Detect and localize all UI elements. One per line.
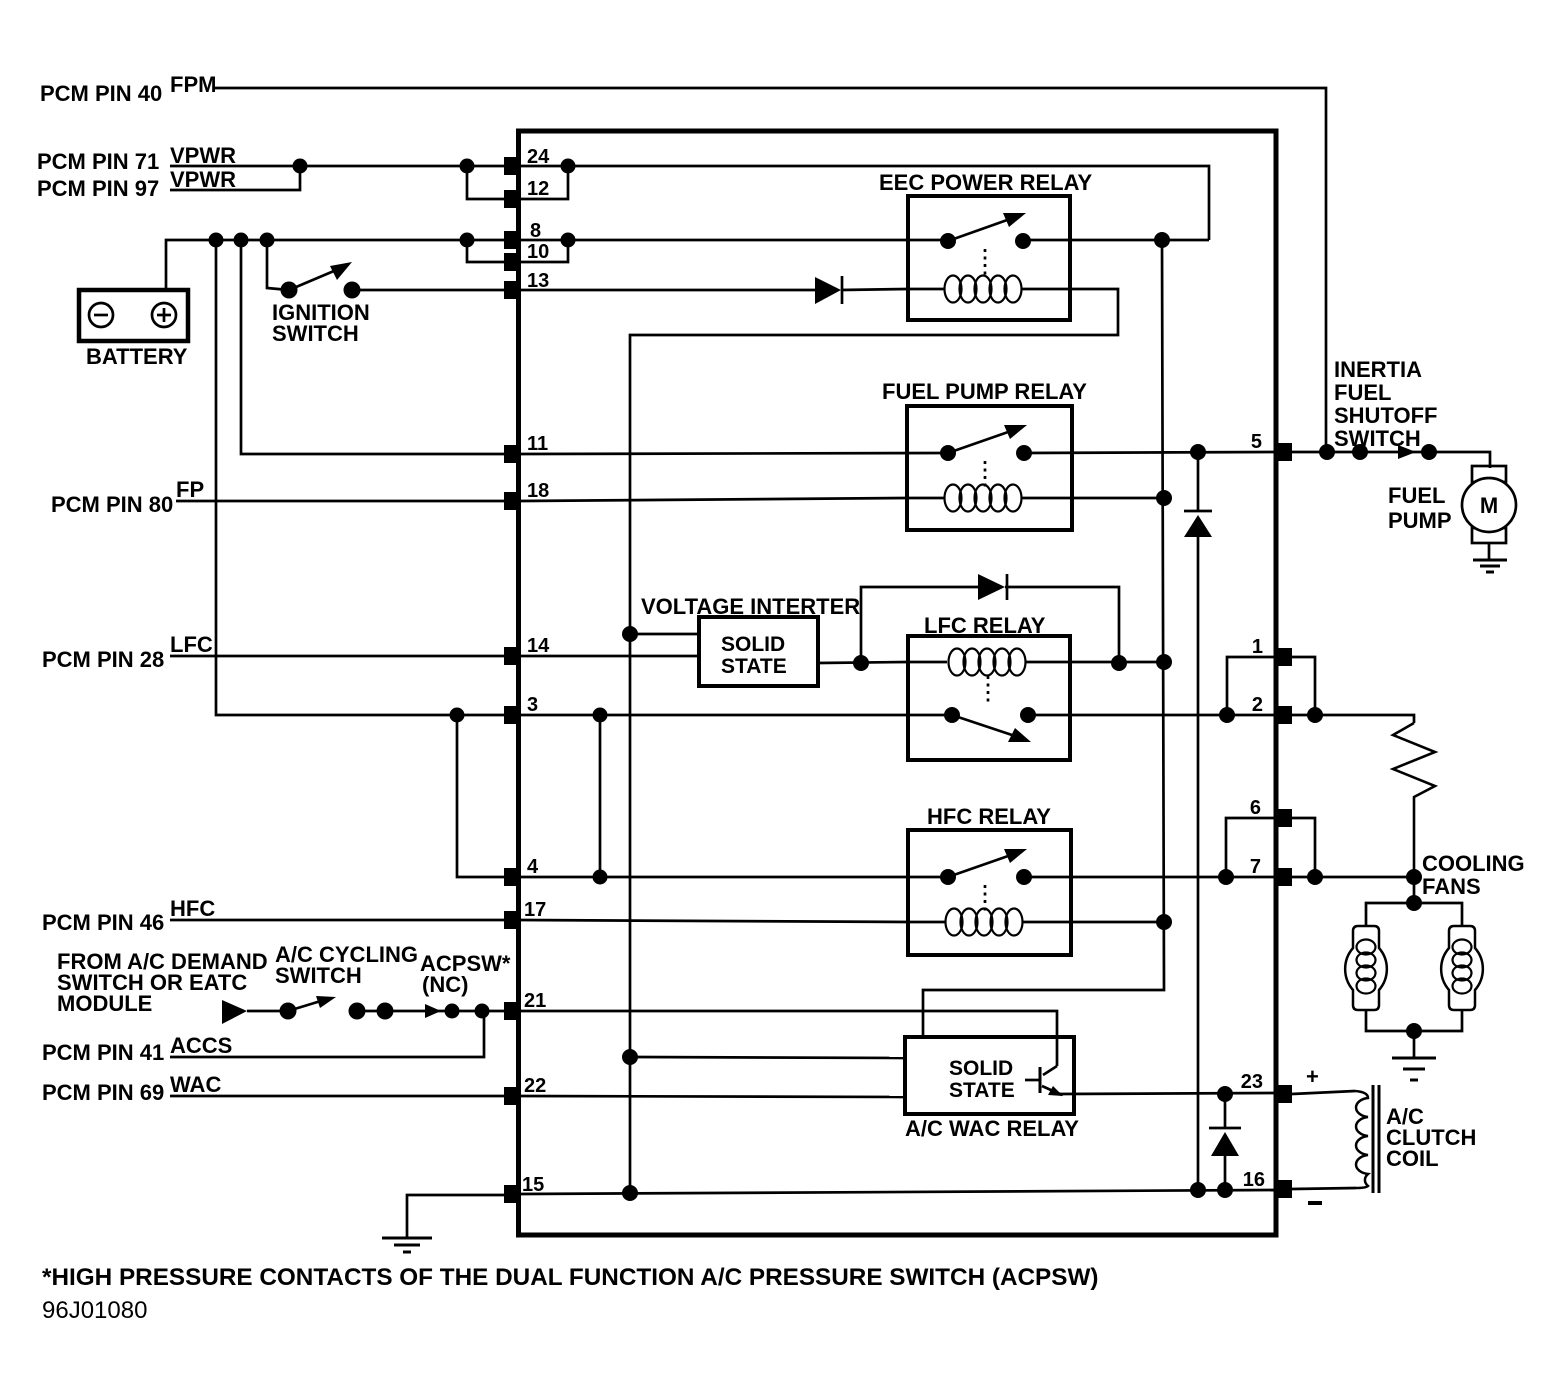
svg-text:A/C WAC RELAY: A/C WAC RELAY: [905, 1116, 1079, 1141]
svg-text:23: 23: [1241, 1071, 1263, 1093]
junction dot pin1 bracket outside: [1307, 707, 1323, 723]
wire bracket pin 24 to pin 12 outside: [467, 166, 504, 199]
svg-text:FPM: FPM: [170, 72, 216, 97]
svg-text:HFC RELAY: HFC RELAY: [927, 804, 1051, 829]
junction dot battery node C: [260, 233, 275, 248]
svg-text:BATTERY: BATTERY: [86, 344, 188, 369]
power rail from EEC output: [923, 240, 1164, 1037]
svg-text:M: M: [1480, 493, 1498, 518]
svg-text:SOLID: SOLID: [949, 1057, 1013, 1080]
wire pin 15 to pin 16 ground bus: [521, 1190, 1276, 1194]
fuel pump clamp diode: [1184, 452, 1212, 1190]
a/c cycling switch: [247, 996, 394, 1020]
junction dot coil return on power rail: [1156, 490, 1172, 506]
junction dot HFC coil return: [1156, 914, 1172, 930]
pin 13: [504, 270, 549, 299]
svg-text:SOLID: SOLID: [721, 633, 785, 656]
pin 24: [504, 146, 550, 175]
svg-text:18: 18: [527, 480, 549, 502]
wire pin 7 to cooling fans: [1292, 876, 1414, 879]
wire pin 2 to resistor: [1292, 715, 1414, 723]
junction dot ground rail on ground bus: [622, 1185, 638, 1201]
svg-text:SWITCH: SWITCH: [1334, 426, 1421, 451]
wire diode to EEC coil: [841, 289, 908, 290]
junction dot VPWR: [293, 159, 308, 174]
junction dot LFC coil input: [853, 655, 869, 671]
pin 18: [504, 480, 549, 510]
junction dot on pin 8 wire: [460, 233, 475, 248]
wire pin 22 to WAC module: [521, 1096, 905, 1097]
pin 14: [504, 635, 550, 665]
svg-text:14: 14: [527, 635, 550, 657]
wire pin 24 line inside to EEC contact feed: [521, 166, 1209, 240]
svg-text:PCM PIN 40: PCM PIN 40: [40, 81, 162, 106]
pin 22: [504, 1075, 546, 1105]
svg-text:11: 11: [527, 433, 548, 455]
svg-text:1: 1: [1252, 636, 1263, 658]
wire ground rail to WAC module: [630, 1057, 905, 1058]
wire riser pin3 wire to pin 4 line at x600: [599, 715, 602, 877]
pin 8: [504, 220, 541, 249]
wire HFC coil return to power rail: [1071, 921, 1164, 924]
svg-text:96J01080: 96J01080: [42, 1297, 147, 1324]
pin 16: [1243, 1169, 1292, 1198]
resistor R1: [1393, 723, 1435, 877]
wire LFC output to pin 2: [1028, 714, 1276, 717]
battery positive feed wire: [166, 240, 504, 290]
pin 4: [504, 856, 539, 886]
wire left fan branch: [1366, 903, 1414, 926]
ground symbol cooling fans: [1392, 1058, 1436, 1080]
pin 21: [504, 990, 546, 1020]
junction dot ACPSW wire: [445, 1004, 460, 1019]
svg-text:2: 2: [1252, 694, 1263, 716]
junction dot pin 3 wire at x457: [450, 708, 465, 723]
junction dot on pin 4 line: [593, 870, 608, 885]
wire fan ground stem: [1413, 1031, 1416, 1057]
pin 11: [504, 433, 548, 463]
junction dot pin1 bracket inside: [1219, 707, 1235, 723]
wire ACPSW to pin 21: [357, 1010, 504, 1013]
svg-text:7: 7: [1250, 856, 1261, 878]
wire EEC coil return to ground rail: [630, 289, 1118, 1193]
junction dot battery node A: [209, 233, 224, 248]
wire ACCS riser: [170, 1011, 484, 1057]
LFC bypass diode branch: [861, 574, 1119, 663]
junction dot inside pin 24 wire: [561, 159, 576, 174]
wire direction arrow on ACPSW wire: [425, 1004, 441, 1018]
pin 10: [504, 241, 549, 271]
svg-text:+: +: [1306, 1064, 1319, 1089]
junction dot bypass return: [1111, 655, 1127, 671]
svg-text:4: 4: [527, 856, 539, 878]
pin 7: [1250, 856, 1292, 886]
svg-text:MODULE: MODULE: [57, 991, 152, 1016]
svg-text:12: 12: [527, 178, 549, 200]
pin 12: [504, 178, 549, 208]
svg-text:21: 21: [524, 990, 546, 1012]
junction dot fan branch node: [1406, 895, 1422, 911]
wire EEC contact output to VPWR feed corner: [1023, 239, 1209, 242]
wire pin 4 to HFC contact: [521, 876, 948, 879]
svg-text:FUEL: FUEL: [1334, 380, 1391, 405]
junction dot inside pin 8 wire: [561, 233, 576, 248]
relay FUEL PUMP RELAY K2: [882, 379, 1087, 530]
wire fan parallel branches: [1413, 877, 1416, 903]
svg-text:STATE: STATE: [721, 655, 787, 678]
junction dot pin6 bracket inside: [1218, 869, 1234, 885]
junction dot fuel pump diode on ground bus: [1190, 1182, 1206, 1198]
wire pin 13 to diode: [521, 289, 815, 292]
relay HFC RELAY K4: [908, 804, 1071, 955]
wire FP label to pin 18: [176, 500, 504, 503]
wire WAC output to pin 23: [1060, 1093, 1276, 1094]
junction dot battery node B: [234, 233, 249, 248]
svg-text:10: 10: [527, 241, 549, 263]
svg-text:FUEL: FUEL: [1388, 483, 1445, 508]
svg-text:COOLING: COOLING: [1422, 851, 1525, 876]
svg-text:SWITCH: SWITCH: [275, 963, 362, 988]
junction dot on pin 24 wire: [460, 159, 475, 174]
svg-text:ACCS: ACCS: [170, 1033, 232, 1058]
svg-text:PCM PIN 41: PCM PIN 41: [42, 1040, 164, 1065]
diode on pin 13 line: [815, 276, 842, 304]
pin 23: [1241, 1071, 1292, 1103]
ground symbol pin 15: [382, 1238, 432, 1252]
svg-text:SHUTOFF: SHUTOFF: [1334, 403, 1437, 428]
svg-text:6: 6: [1250, 797, 1261, 819]
junction dot fan ground node: [1406, 1023, 1422, 1039]
wire bracket pin 8 to pin 10 inside: [521, 240, 568, 262]
pin 15: [504, 1174, 544, 1203]
junction dot cooling fans node: [1406, 869, 1422, 885]
wire pin 18 to fuel pump relay coil: [521, 498, 907, 501]
A/C clutch coil L1: [1355, 1085, 1476, 1193]
wire WAC label to pin 22: [170, 1095, 504, 1098]
svg-text:*HIGH PRESSURE CONTACTS OF THE: *HIGH PRESSURE CONTACTS OF THE DUAL FUNC…: [42, 1264, 1099, 1291]
wire VPWR pin 71 to pin 24: [170, 165, 504, 168]
wire HFC output to pin 7: [1024, 876, 1276, 879]
svg-text:HFC: HFC: [170, 896, 215, 921]
wire pin 23 to clutch coil: [1292, 1091, 1355, 1094]
wire ignition switch to pin 13: [352, 289, 504, 292]
junction dot clutch diode tap: [1217, 1086, 1233, 1102]
wire pin 5 through inertia switch to fuel pump: [1292, 452, 1490, 468]
svg-text:FANS: FANS: [1422, 874, 1481, 899]
pin 5: [1251, 431, 1292, 461]
junction dot pin 3 wire at x600: [593, 708, 608, 723]
a/c demand input arrow: [222, 1000, 247, 1024]
svg-text:22: 22: [524, 1075, 546, 1097]
junction dot ground rail to WAC module: [622, 1049, 638, 1065]
junction dot clamp diode tap on pin 5 line: [1190, 444, 1206, 460]
pin 2: [1252, 694, 1292, 724]
fan motor left: [1345, 926, 1387, 1010]
PCM connector box: [519, 131, 1277, 1235]
svg-text:PCM PIN 71: PCM PIN 71: [37, 149, 159, 174]
wire bracket pin1 outside: [1292, 657, 1315, 715]
motor FUEL PUMP M1: [1388, 466, 1516, 572]
voltage interter SOLID STATE module U2: [699, 617, 818, 686]
wire HFC label to pin 17: [170, 919, 504, 922]
ground wire at pin 15: [407, 1195, 504, 1237]
svg-text:VPWR: VPWR: [170, 143, 236, 168]
pin 17: [504, 899, 546, 929]
svg-text:EEC POWER RELAY: EEC POWER RELAY: [879, 170, 1092, 195]
A/C WAC RELAY SOLID STATE module U3: [905, 1037, 1079, 1141]
wire fuel pump relay output to pin 5: [1024, 452, 1276, 453]
wire pin 21 to WAC transistor collector: [521, 1011, 1057, 1066]
svg-text:LFC: LFC: [170, 632, 213, 657]
junction dot ACCS tap: [475, 1004, 490, 1019]
junction dot LFC coil return: [1156, 654, 1172, 670]
label minus sign: [1308, 1201, 1322, 1205]
svg-text:COIL: COIL: [1386, 1146, 1439, 1171]
svg-text:PCM PIN 69: PCM PIN 69: [42, 1080, 164, 1105]
svg-text:PCM PIN 46: PCM PIN 46: [42, 910, 164, 935]
junction dot FPM tap: [1319, 444, 1335, 460]
wire pin 8 to EEC relay contact: [521, 239, 948, 242]
wire right fan branch: [1414, 903, 1462, 926]
wire pin 11 to fuel pump relay contact: [521, 453, 948, 454]
fan motor right: [1441, 926, 1483, 1010]
battery BATTERY: [79, 290, 188, 369]
wire LFC label to pin 14: [170, 655, 504, 658]
wire VPWR pin 97 riser: [170, 166, 300, 190]
svg-text:(NC): (NC): [422, 972, 468, 997]
wire FPM from PCM PIN 40 to inertia-switch node: [214, 88, 1326, 452]
junction dot EEC output / power rail: [1154, 232, 1170, 248]
wire clutch coil return to pin 16: [1292, 1188, 1356, 1189]
wire fan returns to ground: [1366, 1010, 1462, 1031]
wire bracket pin 8 to pin 10 outside: [467, 240, 504, 262]
relay LFC RELAY K3: [908, 613, 1070, 760]
pin 3: [504, 694, 538, 724]
pin 1: [1252, 636, 1292, 666]
wire bracket pin6 inside: [1226, 818, 1276, 877]
svg-text:16: 16: [1243, 1169, 1265, 1191]
svg-text:17: 17: [524, 899, 546, 921]
wire bracket pin6 outside: [1292, 818, 1315, 877]
wire ground rail to voltage interter: [630, 633, 699, 636]
A/C clutch clamp diode: [1209, 1094, 1241, 1190]
svg-text:PCM PIN 28: PCM PIN 28: [42, 647, 164, 672]
wire fuel pump coil return to power rail: [1072, 497, 1164, 500]
wire pin 17 to HFC coil: [521, 920, 908, 922]
inertia switch arrow: [1398, 445, 1416, 459]
op EEC POWER RELAY U1: [879, 170, 1092, 320]
svg-text:FP: FP: [176, 477, 204, 502]
wire LFC coil return to power rail: [1070, 661, 1164, 664]
wire pin 14 to voltage interter: [521, 655, 699, 658]
svg-text:SWITCH: SWITCH: [272, 321, 359, 346]
svg-text:PCM PIN 80: PCM PIN 80: [51, 492, 173, 517]
wire pin 3 line to LFC contact: [521, 714, 952, 717]
junction dot ground rail to voltage interter: [622, 626, 638, 642]
junction dot pin6 bracket outside: [1307, 869, 1323, 885]
svg-text:PCM PIN 97: PCM PIN 97: [37, 176, 159, 201]
inertia switch contact dot 2: [1421, 444, 1437, 460]
transistor Q1 in WAC module: [1025, 1066, 1063, 1096]
pin 6: [1250, 797, 1292, 827]
wire riser pin3 wire to pin 4: [457, 715, 504, 877]
wire bracket pin1 inside: [1227, 657, 1276, 715]
junction dot clutch diode on ground bus: [1217, 1182, 1233, 1198]
svg-text:PUMP: PUMP: [1388, 508, 1452, 533]
svg-text:INERTIA: INERTIA: [1334, 357, 1422, 382]
svg-text:WAC: WAC: [170, 1072, 221, 1097]
wire bracket pin 24 to pin 12 inside: [521, 166, 568, 199]
wire riser to pin 11: [241, 240, 504, 454]
svg-text:STATE: STATE: [949, 1079, 1015, 1102]
svg-text:5: 5: [1251, 431, 1262, 453]
wire riser to pin 3: [216, 240, 504, 715]
inertia switch contact dot: [1352, 444, 1368, 460]
wire voltage interter output to LFC coil: [818, 662, 908, 663]
svg-text:FUEL PUMP RELAY: FUEL PUMP RELAY: [882, 379, 1087, 404]
svg-text:3: 3: [527, 694, 538, 716]
ignition switch: [267, 240, 370, 346]
svg-text:VPWR: VPWR: [170, 167, 236, 192]
